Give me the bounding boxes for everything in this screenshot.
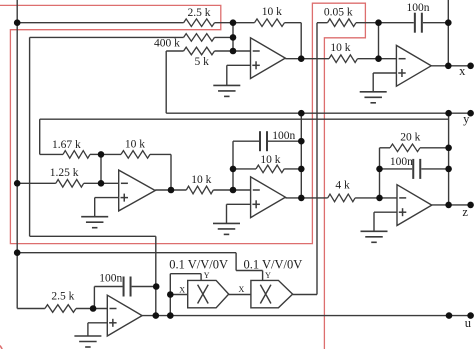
svg-text:20 k: 20 k <box>400 132 420 144</box>
svg-text:4 k: 4 k <box>335 179 350 191</box>
svg-text:2.5 k: 2.5 k <box>51 291 74 303</box>
svg-text:y: y <box>463 112 470 126</box>
svg-text:10 k: 10 k <box>191 174 211 186</box>
svg-text:z: z <box>462 205 468 219</box>
svg-text:400 k: 400 k <box>154 37 180 49</box>
svg-text:X: X <box>179 285 185 294</box>
svg-text:X: X <box>239 285 245 294</box>
svg-text:10 k: 10 k <box>262 6 282 18</box>
svg-text:5 k: 5 k <box>195 56 210 68</box>
svg-text:100n: 100n <box>407 2 430 14</box>
svg-text:1.67 k: 1.67 k <box>52 139 81 151</box>
svg-text:10 k: 10 k <box>260 154 280 166</box>
svg-text:1.25 k: 1.25 k <box>50 167 79 179</box>
svg-text:2.5 k: 2.5 k <box>188 7 211 19</box>
svg-text:100n: 100n <box>272 130 295 142</box>
svg-text:x: x <box>459 64 466 78</box>
svg-text:u: u <box>465 316 472 330</box>
svg-text:10 k: 10 k <box>125 138 145 150</box>
svg-text:100n: 100n <box>99 273 122 285</box>
svg-text:100n: 100n <box>390 156 413 168</box>
svg-text:10 k: 10 k <box>330 42 350 54</box>
svg-text:0.1 V/V/0V: 0.1 V/V/0V <box>243 257 302 271</box>
svg-text:Y: Y <box>265 271 271 280</box>
svg-text:Y: Y <box>204 271 210 280</box>
svg-text:0.05 k: 0.05 k <box>324 6 353 18</box>
svg-text:0.1 V/V/0V: 0.1 V/V/0V <box>169 257 228 271</box>
